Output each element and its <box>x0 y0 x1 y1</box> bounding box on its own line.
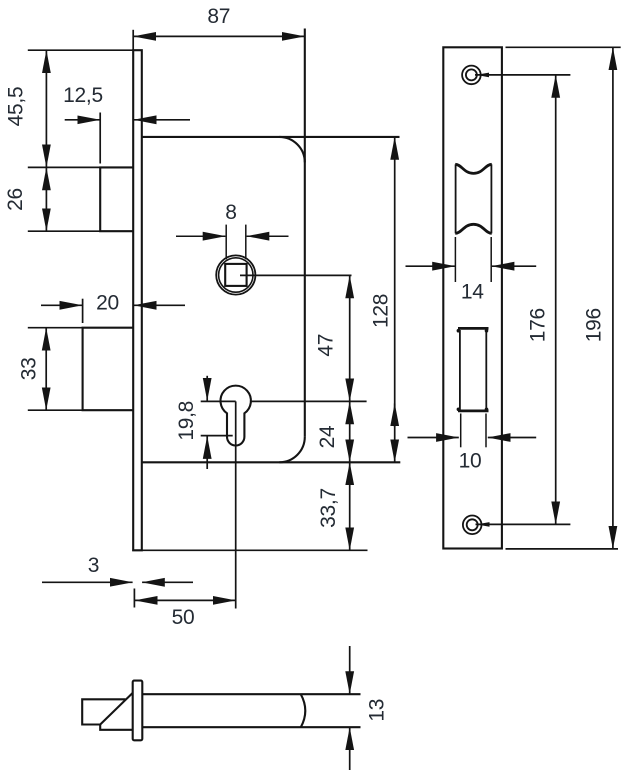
cylinder centerline <box>235 401 237 608</box>
ext 196 bottom <box>506 548 619 550</box>
svg-text:128: 128 <box>370 294 393 328</box>
dim 12,5 <box>65 113 190 164</box>
dim 13 <box>349 646 351 770</box>
dim 20 <box>41 299 185 323</box>
dim 196 <box>612 48 614 549</box>
follower hub box 26 <box>100 167 133 231</box>
deadbolt box 33 <box>83 328 134 411</box>
cylinder center ext right <box>251 400 367 402</box>
svg-text:33,7: 33,7 <box>317 488 340 528</box>
strike faceplate <box>443 47 502 548</box>
svg-text:87: 87 <box>207 5 230 28</box>
svg-text:19,8: 19,8 <box>175 401 198 441</box>
svg-text:47: 47 <box>314 334 337 357</box>
svg-text:10: 10 <box>459 449 482 472</box>
roller cutout <box>455 164 491 233</box>
dim 50 <box>134 589 235 608</box>
hole ext bottom <box>476 523 571 525</box>
dim 33,7 <box>349 463 351 551</box>
dim 45,5 <box>28 50 133 167</box>
hole ext top <box>475 74 570 76</box>
ext 196 top <box>506 46 621 48</box>
svg-text:3: 3 <box>88 554 99 577</box>
follower center ext line <box>240 274 352 276</box>
faceplate <box>133 50 142 550</box>
svg-text:24: 24 <box>316 425 339 448</box>
screw hole top <box>462 66 481 85</box>
follower U1 <box>216 255 255 294</box>
svg-text:176: 176 <box>527 308 550 342</box>
lock body outline <box>142 29 401 463</box>
latch head <box>82 693 133 730</box>
dim 33 <box>28 328 83 411</box>
dim 19,8 <box>201 376 233 469</box>
dim 3 <box>42 581 193 583</box>
dim 10 <box>408 414 537 448</box>
dim 87 <box>133 30 304 50</box>
dim 26 <box>28 168 100 232</box>
svg-text:26: 26 <box>4 188 27 211</box>
dim 24 <box>349 402 351 463</box>
cylinder slot <box>457 328 489 412</box>
svg-text:45,5: 45,5 <box>5 87 28 127</box>
dim 128 <box>394 137 396 462</box>
dim 8 <box>176 225 289 260</box>
latch flange <box>133 681 143 741</box>
svg-text:12,5: 12,5 <box>63 84 103 107</box>
svg-text:50: 50 <box>172 606 195 629</box>
dim 14 <box>406 237 537 282</box>
svg-text:33: 33 <box>18 358 41 381</box>
dim 47 <box>349 276 351 402</box>
cylinder keyhole <box>221 386 251 446</box>
latch shaft <box>142 694 360 727</box>
svg-text:8: 8 <box>225 201 236 224</box>
svg-text:14: 14 <box>461 280 484 303</box>
svg-text:13: 13 <box>365 699 388 722</box>
screw hole bottom <box>463 516 482 535</box>
svg-text:196: 196 <box>582 308 605 342</box>
cylinder center ext left <box>201 400 236 402</box>
dim 176 <box>555 75 557 524</box>
faceplate bottom ext <box>132 549 367 551</box>
svg-text:20: 20 <box>96 291 119 314</box>
